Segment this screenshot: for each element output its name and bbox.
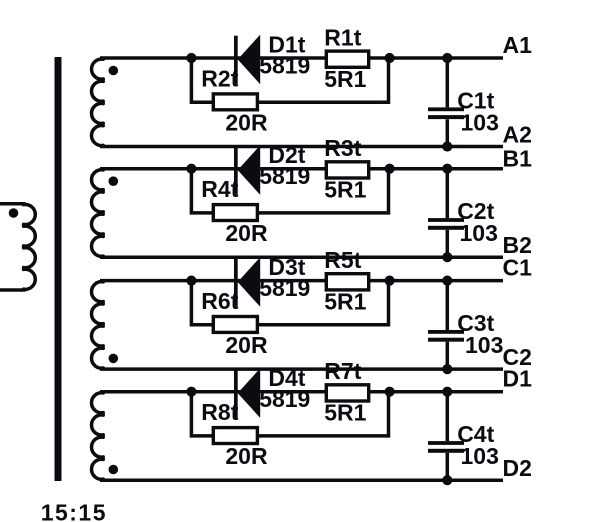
- node A1: [503, 32, 533, 58]
- value label 5819: [259, 52, 310, 78]
- junction capacitor bottom: [442, 364, 452, 374]
- value label 103: [461, 109, 499, 135]
- svg-text:5819: 5819: [259, 52, 310, 78]
- resistor R2t (20R): [213, 94, 257, 110]
- value label 5819: [259, 163, 310, 189]
- value label 5R1: [324, 177, 366, 203]
- wire capacitor C2t stub: [446, 169, 450, 258]
- diode D3t: [234, 257, 260, 307]
- resistor R1t (5R1): [326, 51, 368, 67]
- secondary winding 1: [92, 59, 104, 145]
- value label 5R1: [324, 66, 366, 92]
- secondary winding 4: [92, 393, 104, 479]
- value label 103: [465, 332, 503, 358]
- value label 20R: [225, 332, 268, 358]
- wire R2t bypass branch: [191, 58, 388, 102]
- svg-text:R6t: R6t: [201, 288, 238, 314]
- value label 20R: [225, 220, 268, 246]
- svg-text:R2t: R2t: [201, 66, 238, 92]
- svg-text:D1: D1: [503, 366, 533, 392]
- node A2: [503, 121, 532, 147]
- svg-text:103: 103: [461, 109, 499, 135]
- diode D2t: [234, 145, 260, 195]
- svg-text:C1: C1: [503, 255, 533, 281]
- svg-text:5R1: 5R1: [324, 177, 366, 203]
- wire capacitor C1t stub: [446, 58, 450, 147]
- svg-text:15:15: 15:15: [41, 500, 107, 522]
- node C2: [503, 344, 532, 370]
- svg-text:103: 103: [465, 332, 503, 358]
- svg-text:5R1: 5R1: [324, 66, 366, 92]
- junction capacitor top: [442, 387, 452, 397]
- svg-text:R4t: R4t: [201, 176, 238, 202]
- svg-text:5819: 5819: [259, 386, 310, 412]
- wire top rail A1: [100, 56, 503, 60]
- svg-text:20R: 20R: [225, 110, 268, 136]
- svg-text:5819: 5819: [259, 163, 310, 189]
- svg-text:103: 103: [460, 220, 498, 246]
- junction capacitor bottom: [442, 475, 452, 485]
- resistor R8t (20R): [213, 428, 257, 444]
- diode D1t: [234, 35, 260, 85]
- label D1t: [268, 31, 305, 57]
- node D1: [503, 366, 533, 392]
- capacitor C1t (103): [428, 107, 464, 119]
- svg-text:R7t: R7t: [324, 358, 361, 384]
- wire R8t bypass branch: [191, 392, 388, 436]
- capacitor C3t (103): [428, 330, 464, 342]
- node C1: [503, 255, 533, 281]
- wire top rail B1: [100, 167, 503, 171]
- svg-text:20R: 20R: [225, 443, 268, 469]
- svg-text:R3t: R3t: [324, 135, 361, 161]
- resistor R7t (5R1): [326, 385, 368, 401]
- value label 5819: [259, 275, 310, 301]
- wire R6t bypass branch: [191, 281, 388, 325]
- junction right branch top rail: [385, 164, 395, 174]
- wire capacitor C3t stub: [446, 281, 450, 370]
- value label 5R1: [324, 288, 366, 314]
- wire capacitor C4t stub: [446, 392, 450, 481]
- node D2: [503, 455, 532, 481]
- label D3t: [268, 254, 305, 280]
- junction right branch top rail: [385, 387, 395, 397]
- wire bottom rail B2: [100, 255, 503, 259]
- value label 103: [461, 443, 499, 469]
- label R1t: [324, 25, 361, 51]
- turns ratio label 15:15: [41, 500, 107, 522]
- transformer core: [55, 57, 62, 481]
- node B1: [503, 145, 533, 171]
- wire bottom rail A2: [100, 145, 503, 149]
- junction capacitor top: [442, 276, 452, 286]
- secondary winding 3: [92, 282, 104, 368]
- capacitor C2t (103): [428, 218, 464, 230]
- label D2t: [268, 142, 305, 168]
- junction left branch top rail: [186, 276, 196, 286]
- svg-text:5819: 5819: [259, 275, 310, 301]
- polarity dot winding 2: [109, 176, 119, 186]
- svg-text:20R: 20R: [225, 220, 268, 246]
- resistor R4t (20R): [213, 205, 257, 221]
- svg-text:R5t: R5t: [324, 247, 361, 273]
- junction left branch top rail: [186, 387, 196, 397]
- resistor R3t (5R1): [326, 162, 368, 178]
- wire top rail D1: [100, 390, 503, 394]
- capacitor C4t (103): [428, 441, 464, 453]
- label C3t: [457, 310, 494, 336]
- label R5t: [324, 247, 361, 273]
- value label 20R: [225, 443, 268, 469]
- junction capacitor top: [442, 53, 452, 63]
- secondary winding 2: [92, 170, 104, 256]
- label R6t: [201, 288, 238, 314]
- value label 5819: [259, 386, 310, 412]
- svg-text:5R1: 5R1: [324, 288, 366, 314]
- polarity dot winding 4: [109, 465, 119, 475]
- svg-text:D2: D2: [503, 455, 532, 481]
- resistor R6t (20R): [213, 317, 257, 333]
- label C1t: [457, 88, 494, 114]
- junction left branch top rail: [186, 53, 196, 63]
- primary polarity dot: [9, 208, 19, 218]
- wire bottom rail C2: [100, 367, 503, 371]
- diode D4t: [234, 368, 260, 418]
- junction right branch top rail: [385, 276, 395, 286]
- primary winding: [0, 204, 35, 290]
- svg-text:A1: A1: [503, 32, 533, 58]
- resistor R5t (5R1): [326, 274, 368, 290]
- wire R4t bypass branch: [191, 169, 388, 213]
- junction capacitor bottom: [442, 141, 452, 151]
- polarity dot winding 1: [109, 66, 119, 76]
- wire top rail C1: [100, 279, 503, 283]
- svg-text:R1t: R1t: [324, 25, 361, 51]
- svg-text:B1: B1: [503, 145, 533, 171]
- value label 20R: [225, 110, 268, 136]
- svg-text:5R1: 5R1: [324, 400, 366, 426]
- junction capacitor bottom: [442, 252, 452, 262]
- junction right branch top rail: [385, 53, 395, 63]
- label R4t: [201, 176, 238, 202]
- label C4t: [457, 421, 494, 447]
- label R3t: [324, 135, 361, 161]
- wire bottom rail D2: [100, 478, 503, 482]
- label R8t: [201, 399, 238, 425]
- value label 5R1: [324, 400, 366, 426]
- svg-text:103: 103: [461, 443, 499, 469]
- node B2: [503, 232, 532, 258]
- svg-text:R8t: R8t: [201, 399, 238, 425]
- svg-text:20R: 20R: [225, 332, 268, 358]
- svg-text:A2: A2: [503, 121, 532, 147]
- label D4t: [268, 365, 305, 391]
- polarity dot winding 3: [109, 354, 119, 364]
- junction capacitor top: [442, 164, 452, 174]
- value label 103: [460, 220, 498, 246]
- label R2t: [201, 66, 238, 92]
- label C2t: [457, 198, 494, 224]
- label R7t: [324, 358, 361, 384]
- junction left branch top rail: [186, 164, 196, 174]
